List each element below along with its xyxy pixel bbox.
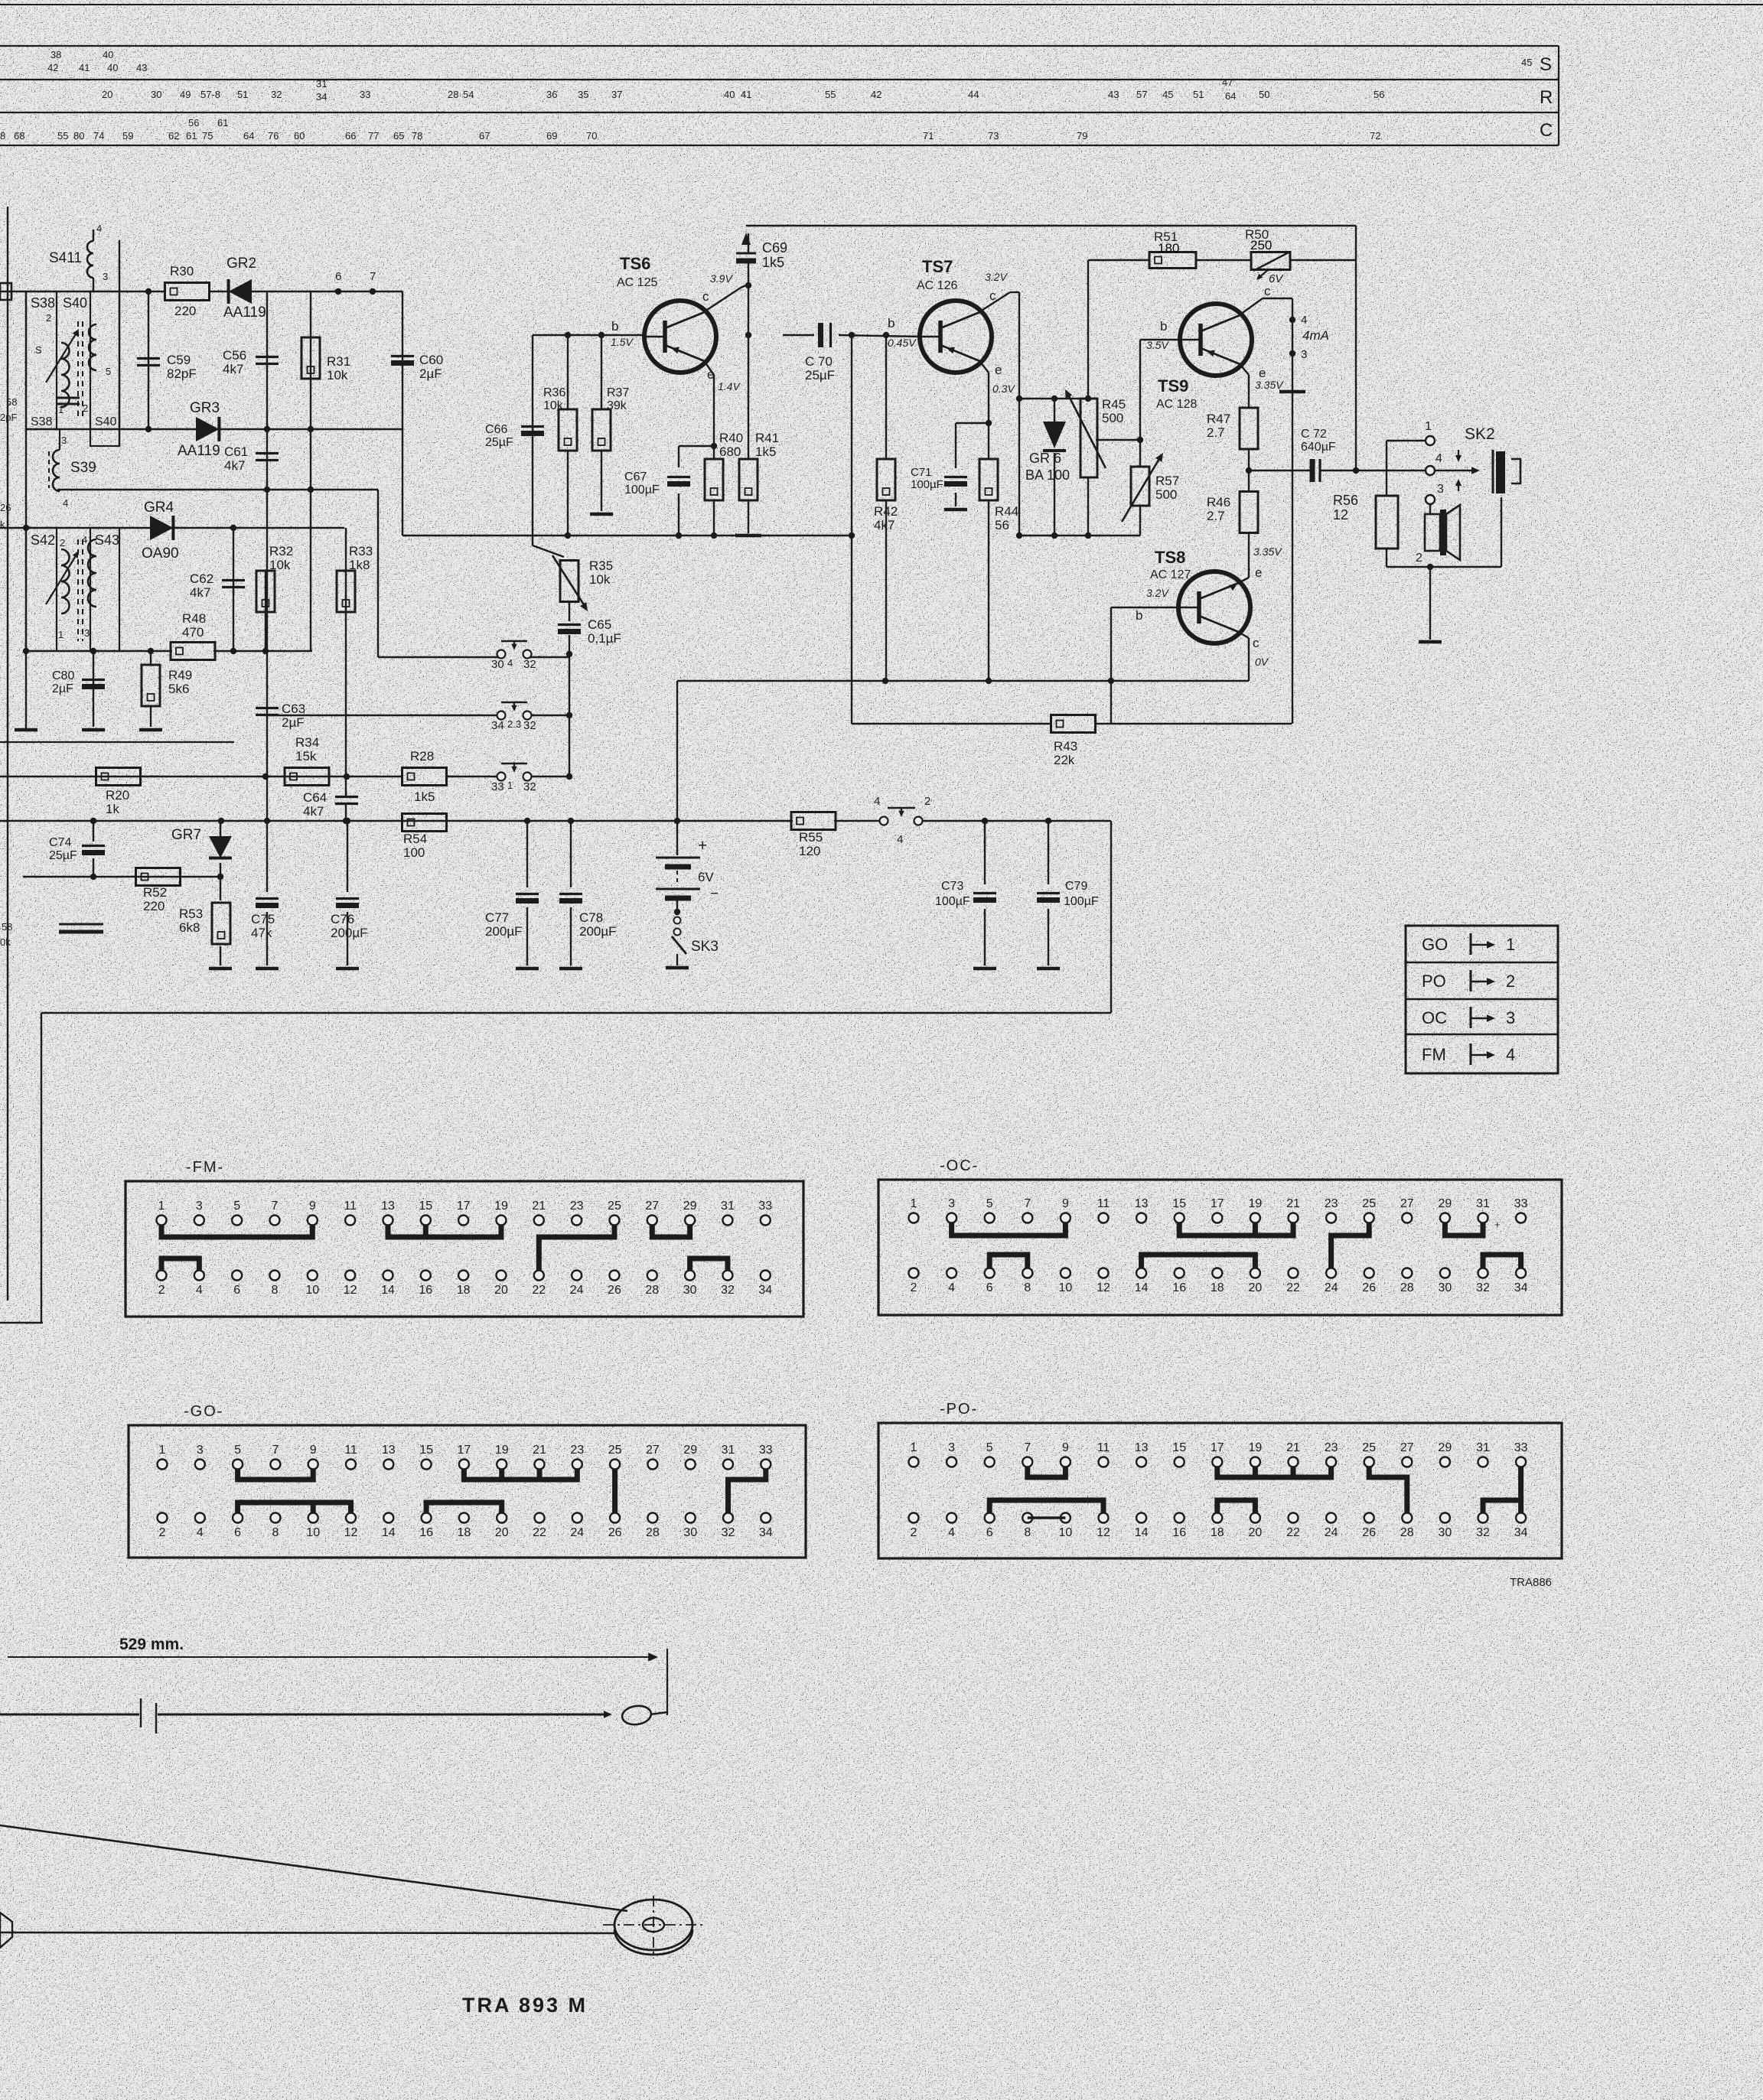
svg-text:c: c [989,288,996,303]
svg-text:26: 26 [608,1284,621,1297]
svg-text:R45: R45 [1102,397,1126,412]
svg-text:c: c [1253,636,1260,650]
svg-text:30: 30 [683,1284,697,1297]
svg-text:30: 30 [1439,1526,1452,1539]
svg-text:8: 8 [272,1526,279,1539]
svg-text:GR2: GR2 [226,256,256,272]
svg-text:C80: C80 [52,669,74,682]
svg-text:27: 27 [645,1200,659,1213]
svg-text:21: 21 [532,1200,546,1213]
svg-text:R57: R57 [1155,474,1179,488]
svg-text:2pF: 2pF [0,412,17,423]
svg-text:16: 16 [1172,1526,1186,1539]
svg-text:7: 7 [1024,1197,1031,1210]
svg-text:2.3: 2.3 [507,718,521,730]
svg-text:64: 64 [1225,90,1236,102]
svg-text:25: 25 [608,1444,622,1457]
svg-text:70: 70 [586,130,597,142]
svg-text:C61: C61 [224,444,248,459]
svg-text:R28: R28 [410,749,434,763]
svg-text:-GO-: -GO- [184,1403,223,1420]
svg-text:18: 18 [458,1526,471,1539]
svg-text:3: 3 [61,435,67,446]
svg-text:AA119: AA119 [223,304,266,321]
svg-text:14: 14 [1135,1526,1149,1539]
svg-text:18: 18 [1211,1281,1224,1294]
svg-text:C66: C66 [485,423,507,436]
svg-text:11: 11 [1097,1441,1110,1454]
svg-text:23: 23 [1325,1197,1338,1210]
svg-text:14: 14 [381,1284,395,1297]
svg-text:4k7: 4k7 [303,804,324,819]
svg-text:4: 4 [948,1526,955,1539]
svg-text:10k: 10k [589,572,611,587]
svg-text:S: S [1540,54,1552,75]
svg-text:TRA886: TRA886 [1510,1576,1552,1589]
svg-text:2: 2 [1416,552,1422,565]
svg-text:20: 20 [102,89,112,100]
svg-text:51: 51 [1193,89,1204,100]
svg-text:22: 22 [532,1284,546,1297]
svg-text:TS7: TS7 [922,257,953,276]
svg-text:11: 11 [344,1444,357,1457]
svg-text:4: 4 [82,534,87,545]
svg-text:65: 65 [393,130,404,142]
svg-text:5: 5 [234,1444,241,1457]
svg-text:2: 2 [83,402,88,414]
svg-text:R41: R41 [755,431,779,445]
svg-text:2µF: 2µF [282,715,305,730]
svg-text:6: 6 [986,1526,993,1539]
svg-text:C75: C75 [251,912,275,926]
svg-text:AC 125: AC 125 [617,276,657,289]
svg-text:6k8: 6k8 [179,920,200,935]
svg-text:250: 250 [1250,238,1272,252]
svg-text:13: 13 [381,1200,395,1213]
svg-text:5: 5 [986,1441,993,1454]
svg-text:4: 4 [948,1281,955,1294]
svg-text:9: 9 [310,1444,317,1457]
svg-text:14: 14 [1135,1281,1149,1294]
svg-text:20: 20 [1249,1281,1263,1294]
svg-text:2.7: 2.7 [1207,509,1225,523]
svg-text:49: 49 [180,89,191,100]
svg-text:8: 8 [1024,1281,1031,1294]
svg-text:76: 76 [268,130,279,142]
svg-text:220: 220 [174,304,196,318]
svg-text:R55: R55 [799,830,823,845]
svg-text:2µF: 2µF [52,682,73,695]
svg-text:C77: C77 [485,910,509,925]
svg-text:C 70: C 70 [805,354,833,369]
svg-text:1k5: 1k5 [414,790,435,804]
svg-text:29: 29 [1439,1441,1452,1454]
svg-text:3: 3 [103,271,108,282]
svg-text:b: b [1160,319,1167,334]
svg-text:78: 78 [412,130,422,142]
svg-text:7: 7 [1024,1441,1031,1454]
svg-text:26: 26 [608,1526,622,1539]
svg-text:4k7: 4k7 [874,518,895,532]
svg-text:45: 45 [1521,57,1532,68]
svg-text:13: 13 [1135,1197,1149,1210]
svg-text:640µF: 640µF [1301,441,1336,454]
svg-text:R36: R36 [543,386,565,399]
svg-text:32: 32 [1476,1526,1490,1539]
svg-text:28: 28 [645,1284,659,1297]
svg-text:21: 21 [1286,1441,1300,1454]
svg-text:47: 47 [1222,77,1233,88]
svg-text:15: 15 [419,1444,433,1457]
svg-text:25: 25 [1362,1441,1376,1454]
svg-text:-PO-: -PO- [940,1401,978,1418]
svg-text:23: 23 [570,1200,584,1213]
svg-text:GR3: GR3 [190,400,220,416]
svg-text:7: 7 [370,270,376,283]
svg-text:-OC-: -OC- [940,1157,979,1174]
svg-text:17: 17 [458,1444,471,1457]
svg-text:2: 2 [911,1526,917,1539]
svg-text:40: 40 [107,62,118,73]
svg-text:8: 8 [272,1284,279,1297]
svg-text:1: 1 [1506,935,1515,954]
svg-text:S411: S411 [49,250,82,266]
svg-text:24: 24 [570,1284,584,1297]
svg-text:16: 16 [1172,1281,1186,1294]
svg-text:39k: 39k [607,399,627,412]
svg-text:2: 2 [924,795,930,808]
svg-text:C69: C69 [762,240,787,256]
svg-text:30: 30 [683,1526,697,1539]
svg-text:4: 4 [1506,1045,1515,1064]
svg-text:12: 12 [344,1284,357,1297]
svg-text:82pF: 82pF [167,366,197,381]
svg-text:44: 44 [968,89,979,100]
svg-text:79: 79 [1077,130,1087,142]
svg-text:30: 30 [151,89,161,100]
svg-text:5: 5 [106,366,111,377]
svg-text:AC 128: AC 128 [1156,398,1197,411]
svg-text:AC 126: AC 126 [917,279,957,292]
svg-text:S42: S42 [31,532,55,548]
svg-text:3: 3 [948,1441,955,1454]
svg-text:R20: R20 [106,788,129,803]
svg-text:18: 18 [1211,1526,1224,1539]
svg-text:10: 10 [1059,1281,1073,1294]
svg-text:22k: 22k [1054,753,1075,767]
svg-text:C: C [1540,120,1553,141]
svg-text:C56: C56 [223,348,246,363]
svg-text:1.4V: 1.4V [718,380,741,392]
svg-text:1k: 1k [106,802,119,816]
svg-text:3: 3 [196,1200,203,1213]
svg-text:30: 30 [491,658,504,671]
svg-text:S38: S38 [31,295,55,311]
svg-text:9: 9 [1062,1441,1069,1454]
svg-text:C67: C67 [624,470,647,483]
svg-text:C62: C62 [190,571,213,586]
svg-text:32: 32 [1476,1281,1490,1294]
svg-text:80: 80 [73,130,84,142]
svg-text:4: 4 [1301,314,1307,327]
svg-text:25µF: 25µF [805,368,835,383]
svg-text:56: 56 [188,117,199,129]
svg-text:529 mm.: 529 mm. [119,1636,184,1653]
svg-text:FM: FM [1422,1045,1446,1064]
svg-text:R30: R30 [170,264,194,278]
svg-text:32: 32 [721,1284,735,1297]
svg-text:3.35V: 3.35V [1255,379,1284,391]
svg-text:31: 31 [722,1444,735,1457]
svg-text:69: 69 [546,130,557,142]
svg-text:71: 71 [923,130,934,142]
svg-text:10k: 10k [327,368,348,383]
svg-text:C59: C59 [167,353,191,367]
svg-text:500: 500 [1102,411,1123,425]
svg-text:47k: 47k [251,926,272,940]
svg-text:74: 74 [93,130,104,142]
svg-text:4: 4 [1435,452,1442,465]
svg-text:4: 4 [897,833,903,846]
svg-text:0k: 0k [0,936,11,948]
svg-text:27: 27 [1400,1197,1414,1210]
svg-text:2: 2 [46,312,51,324]
svg-text:42: 42 [871,89,881,100]
svg-text:10: 10 [1059,1526,1073,1539]
svg-text:k: k [0,519,5,530]
svg-text:SK2: SK2 [1465,425,1495,443]
svg-text:R37: R37 [607,386,629,399]
svg-text:21: 21 [1286,1197,1300,1210]
svg-text:3.35V: 3.35V [1253,545,1282,558]
svg-text:7: 7 [272,1444,279,1457]
svg-text:36: 36 [546,89,557,100]
svg-text:R33: R33 [349,544,373,558]
svg-text:6: 6 [335,270,341,283]
svg-text:15: 15 [419,1200,432,1213]
svg-text:43: 43 [1108,89,1119,100]
svg-text:33: 33 [491,780,504,793]
svg-text:100: 100 [403,845,425,860]
svg-text:77: 77 [368,130,379,142]
svg-text:11: 11 [1097,1197,1110,1210]
svg-text:4k7: 4k7 [190,585,210,600]
svg-text:R48: R48 [182,611,206,626]
svg-text:C71: C71 [911,466,932,479]
svg-text:1: 1 [911,1441,917,1454]
svg-text:1: 1 [159,1444,166,1457]
svg-text:13: 13 [1135,1441,1149,1454]
svg-text:32: 32 [271,89,282,100]
svg-text:TS9: TS9 [1158,376,1188,396]
svg-text:58: 58 [2,921,12,933]
svg-text:3.5V: 3.5V [1146,339,1169,351]
svg-text:R34: R34 [295,735,319,750]
svg-text:b: b [611,319,618,334]
svg-text:180: 180 [1158,241,1179,256]
svg-text:6V: 6V [698,870,714,884]
svg-text:R46: R46 [1207,495,1230,510]
svg-text:100µF: 100µF [1064,895,1099,908]
svg-text:R53: R53 [179,907,203,921]
svg-text:S: S [35,344,42,356]
svg-text:R32: R32 [269,544,293,558]
svg-text:R42: R42 [874,504,898,519]
svg-text:33: 33 [758,1200,772,1213]
svg-text:34: 34 [1514,1526,1528,1539]
svg-text:31: 31 [1476,1197,1490,1210]
svg-text:54: 54 [463,89,474,100]
svg-text:34: 34 [1514,1281,1528,1294]
svg-text:61: 61 [217,117,228,129]
svg-text:29: 29 [683,1200,697,1213]
svg-text:+: + [1494,1219,1501,1230]
svg-text:SK3: SK3 [691,939,719,955]
svg-text:33: 33 [1514,1197,1528,1210]
svg-text:2: 2 [1506,972,1515,991]
svg-text:68: 68 [14,130,24,142]
svg-text:1k8: 1k8 [349,558,370,572]
svg-text:TS8: TS8 [1155,548,1185,567]
svg-text:R44: R44 [995,504,1018,519]
svg-text:12: 12 [1097,1526,1110,1539]
svg-text:3.2V: 3.2V [1146,587,1169,599]
svg-text:120: 120 [799,844,820,858]
svg-text:55: 55 [57,130,68,142]
svg-text:32: 32 [722,1526,735,1539]
svg-text:500: 500 [1155,487,1177,502]
svg-text:21: 21 [533,1444,546,1457]
svg-text:3: 3 [948,1197,955,1210]
svg-text:56: 56 [995,518,1009,532]
svg-text:26: 26 [1362,1526,1376,1539]
svg-text:17: 17 [457,1200,471,1213]
svg-text:4: 4 [507,657,513,669]
svg-text:43: 43 [136,62,147,73]
svg-text:0.45V: 0.45V [888,337,917,349]
svg-text:8: 8 [1024,1526,1031,1539]
svg-text:32: 32 [523,719,536,732]
svg-text:R31: R31 [327,354,350,369]
svg-text:26: 26 [1362,1281,1376,1294]
svg-text:60: 60 [294,130,305,142]
svg-text:16: 16 [419,1526,433,1539]
svg-text:AC 127: AC 127 [1150,568,1191,581]
svg-text:R43: R43 [1054,739,1077,754]
svg-text:C76: C76 [331,912,354,926]
svg-text:S43: S43 [95,532,119,548]
svg-text:18: 18 [457,1284,471,1297]
svg-text:10k: 10k [269,558,291,572]
svg-text:16: 16 [419,1284,432,1297]
svg-text:100µF: 100µF [935,895,970,908]
svg-text:33: 33 [759,1444,773,1457]
svg-text:33: 33 [1514,1441,1528,1454]
svg-text:C64: C64 [303,790,327,805]
svg-text:20: 20 [1249,1526,1263,1539]
svg-text:9: 9 [309,1200,316,1213]
svg-text:27: 27 [1400,1441,1414,1454]
svg-text:3: 3 [1437,483,1444,496]
svg-text:1: 1 [58,404,64,415]
svg-text:40: 40 [103,49,113,60]
svg-text:R40: R40 [719,431,743,445]
svg-text:19: 19 [1249,1197,1263,1210]
svg-text:4: 4 [96,223,102,234]
svg-text:14: 14 [382,1526,396,1539]
svg-text:1k5: 1k5 [755,444,776,459]
svg-text:GR4: GR4 [144,500,174,516]
svg-text:28: 28 [1400,1526,1414,1539]
svg-text:64: 64 [243,130,254,142]
svg-text:0,1µF: 0,1µF [588,631,621,646]
svg-text:58: 58 [6,396,17,408]
svg-text:3: 3 [1301,348,1307,361]
svg-text:C73: C73 [941,880,963,893]
svg-text:e: e [995,363,1002,377]
svg-text:31: 31 [316,78,327,90]
svg-text:1: 1 [58,629,64,640]
svg-text:73: 73 [988,130,999,142]
svg-text:4: 4 [197,1526,204,1539]
svg-text:C60: C60 [419,353,443,367]
svg-text:2: 2 [159,1526,166,1539]
svg-text:TRA 893 M: TRA 893 M [462,1994,588,2017]
svg-text:R56: R56 [1333,493,1358,508]
svg-text:25: 25 [608,1200,621,1213]
svg-text:4mA: 4mA [1302,328,1329,343]
svg-text:4k7: 4k7 [223,362,243,376]
svg-text:c: c [1264,284,1271,298]
svg-text:11: 11 [344,1200,357,1213]
svg-text:67: 67 [479,130,490,142]
svg-text:33: 33 [360,89,370,100]
svg-text:10: 10 [306,1526,320,1539]
svg-text:22: 22 [533,1526,546,1539]
svg-text:R54: R54 [403,832,427,846]
svg-text:C63: C63 [282,702,305,716]
svg-text:10: 10 [305,1284,319,1297]
svg-text:24: 24 [1325,1526,1338,1539]
svg-text:100µF: 100µF [911,478,943,491]
svg-text:3: 3 [84,627,90,639]
svg-text:R49: R49 [168,668,192,682]
svg-text:C79: C79 [1065,880,1087,893]
svg-text:25µF: 25µF [49,849,77,862]
svg-text:72: 72 [1370,130,1380,142]
svg-text:59: 59 [122,130,133,142]
svg-text:0V: 0V [1255,656,1269,668]
svg-text:12: 12 [1097,1281,1110,1294]
svg-text:2: 2 [158,1284,165,1297]
svg-text:34: 34 [759,1526,773,1539]
svg-text:200µF: 200µF [579,924,617,939]
svg-text:29: 29 [1439,1197,1452,1210]
svg-text:75: 75 [202,130,213,142]
svg-text:2: 2 [911,1281,917,1294]
svg-text:66: 66 [345,130,356,142]
svg-text:28: 28 [1400,1281,1414,1294]
svg-text:34: 34 [758,1284,772,1297]
svg-text:19: 19 [494,1200,508,1213]
svg-text:9: 9 [1062,1197,1069,1210]
svg-text:24: 24 [1325,1281,1338,1294]
svg-text:6: 6 [233,1284,240,1297]
svg-text:5: 5 [233,1200,240,1213]
svg-text:12: 12 [1333,507,1348,523]
svg-text:30: 30 [1439,1281,1452,1294]
svg-text:6V: 6V [1269,272,1284,285]
